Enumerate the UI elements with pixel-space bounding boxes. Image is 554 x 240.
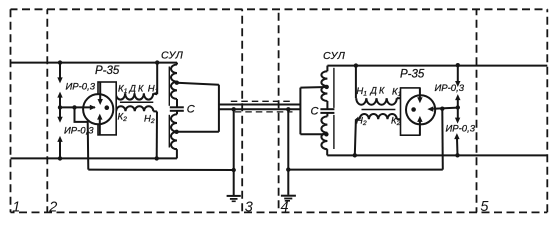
svg-text:Р-35: Р-35 bbox=[95, 65, 120, 77]
svg-text:СУЛ: СУЛ bbox=[323, 50, 346, 62]
svg-text:3: 3 bbox=[245, 200, 253, 216]
svg-text:4: 4 bbox=[281, 200, 289, 216]
svg-text:5: 5 bbox=[480, 199, 489, 215]
svg-text:ИР-0,3: ИР-0,3 bbox=[446, 124, 476, 135]
svg-text:2: 2 bbox=[48, 200, 57, 216]
svg-text:ИР-0,3: ИР-0,3 bbox=[435, 83, 465, 94]
svg-text:ИР-0,3: ИР-0,3 bbox=[66, 81, 96, 92]
svg-text:ДК: ДК bbox=[370, 85, 387, 95]
svg-text:СУЛ: СУЛ bbox=[161, 50, 184, 62]
svg-text:1: 1 bbox=[12, 200, 20, 216]
svg-text:Р-35: Р-35 bbox=[400, 68, 425, 80]
svg-text:ИР-0,3: ИР-0,3 bbox=[64, 126, 94, 137]
svg-text:С: С bbox=[311, 106, 319, 118]
svg-text:ДК: ДК bbox=[129, 83, 146, 93]
svg-text:С: С bbox=[187, 104, 195, 116]
